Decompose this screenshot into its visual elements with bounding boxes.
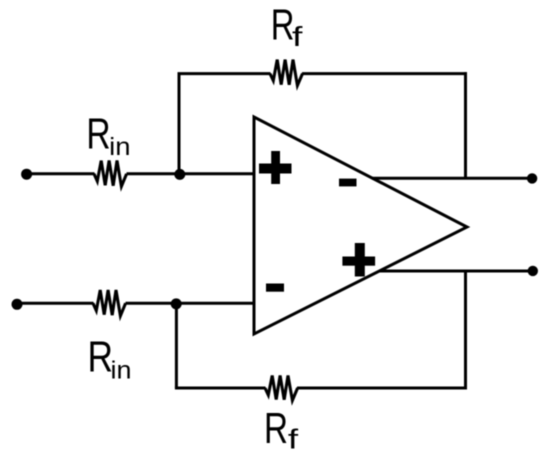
- svg-text:f: f: [288, 423, 298, 454]
- wire right vertical (top feedback down to top output): [464, 72, 467, 178]
- svg-text:f: f: [292, 21, 303, 52]
- node junction dot (top input to feedback): [174, 169, 185, 180]
- resistor Rf (top) zigzag: [270, 60, 303, 86]
- wire bottom feedback (left of Rf): [175, 387, 266, 390]
- svg-text:R: R: [264, 405, 288, 453]
- wire bottom input (left of Rin): [17, 302, 94, 305]
- wire bottom input (right of Rin): [126, 302, 255, 305]
- resistor Rin (top) zigzag: [94, 161, 127, 187]
- wire left vertical (junction down to bottom feedback): [175, 304, 178, 388]
- node Vin- terminal dot (bottom-left): [12, 299, 23, 310]
- resistor Rf (bottom) zigzag: [265, 376, 298, 401]
- wire top input (left of Rin): [27, 172, 95, 175]
- wire top input (right of Rin): [127, 172, 255, 175]
- op-amp noninverted output + symbol: [342, 243, 375, 277]
- node junction dot (bottom input to feedback): [171, 298, 182, 309]
- svg-text:R: R: [86, 111, 110, 159]
- node Vout+ terminal dot (bottom-right): [528, 266, 538, 276]
- wire top output: [372, 177, 532, 180]
- wire bottom output: [379, 270, 533, 273]
- op-amp inverted output - symbol: [339, 179, 357, 187]
- op-amp inverting input - symbol: [266, 284, 284, 292]
- wire top feedback (right of Rf): [302, 72, 467, 75]
- node Vin+ terminal dot (top-left): [21, 169, 32, 180]
- wire top feedback (left of Rf): [178, 72, 271, 75]
- op-amp noninverting input + symbol: [259, 151, 292, 184]
- wire left vertical (junction up to top feedback): [178, 74, 181, 175]
- svg-text:in: in: [111, 357, 132, 385]
- svg-text:R: R: [88, 334, 114, 382]
- svg-text:R: R: [271, 2, 295, 50]
- resistor Rin (bottom) zigzag: [93, 290, 126, 316]
- wire right vertical (bottom output down to bottom feedback): [464, 271, 467, 390]
- node Vout- terminal dot (top-right): [527, 173, 537, 183]
- svg-text:in: in: [109, 133, 130, 161]
- wire bottom feedback (right of Rf): [297, 387, 467, 390]
- op-amp U1 triangle body: [254, 117, 467, 334]
